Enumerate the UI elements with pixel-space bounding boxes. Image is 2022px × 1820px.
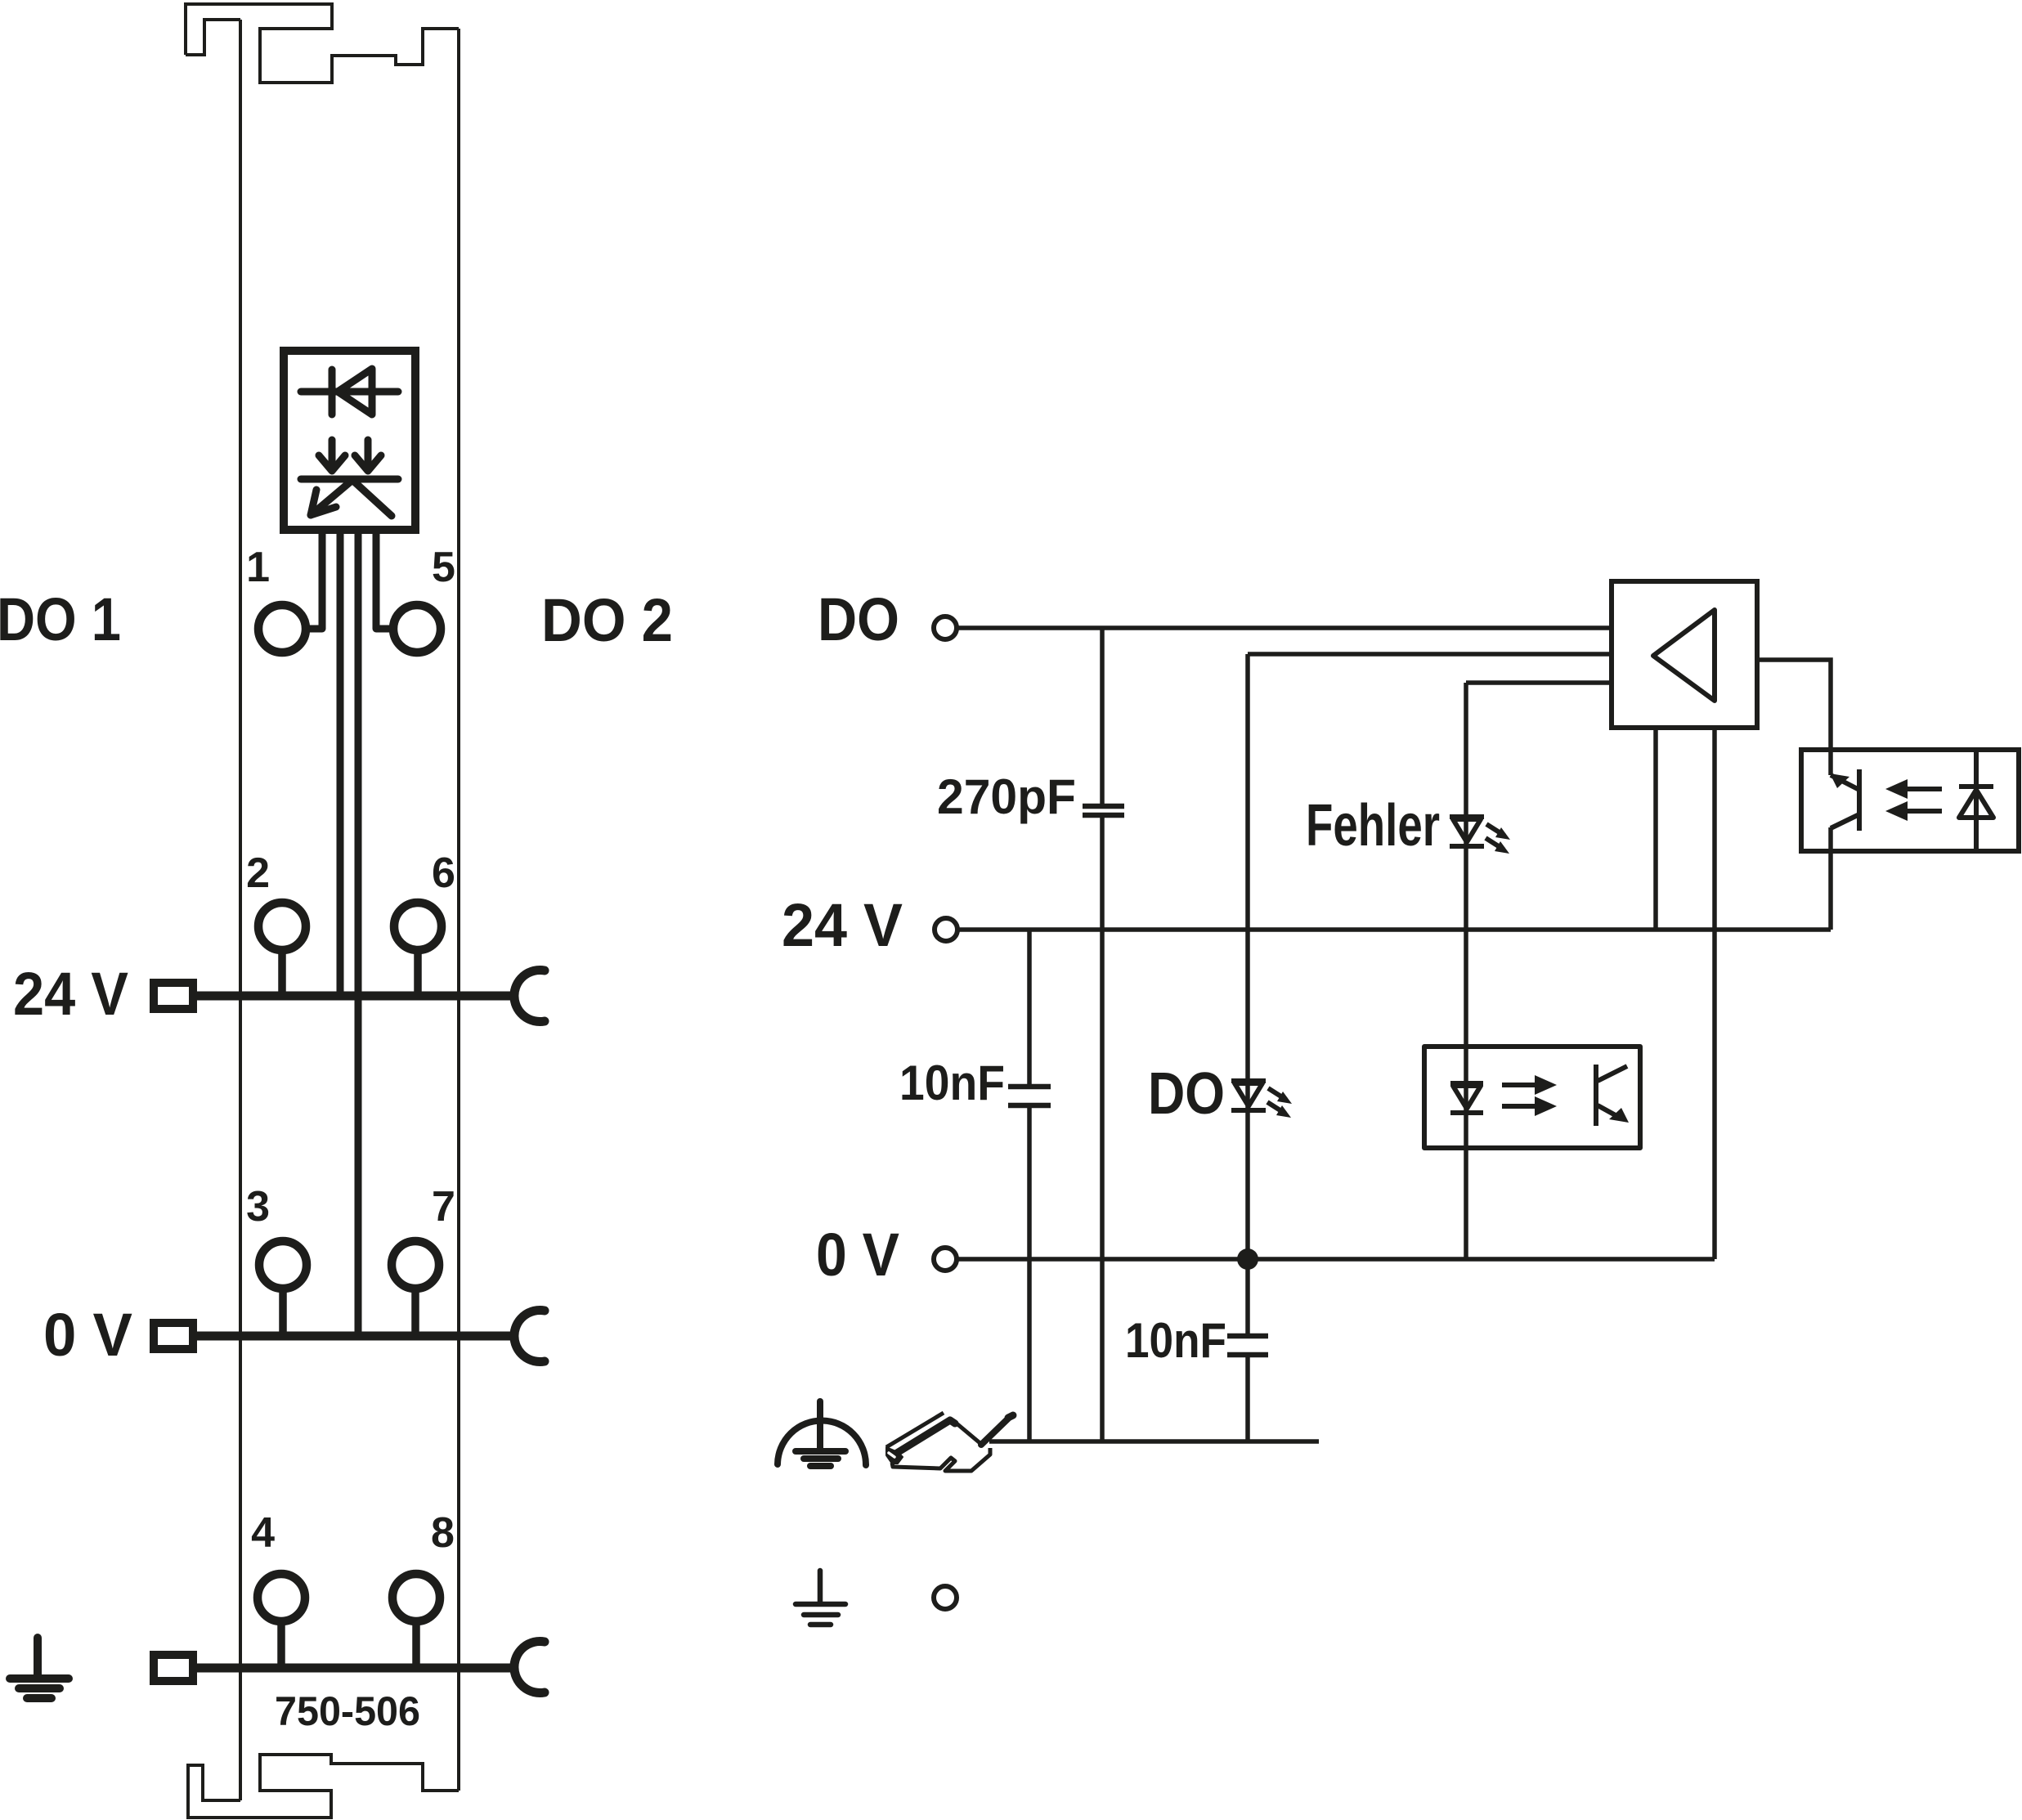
svg-text:DO: DO	[818, 585, 899, 653]
svg-text:750-506: 750-506	[275, 1688, 420, 1734]
svg-text:2: 2	[246, 849, 270, 897]
svg-text:0 V: 0 V	[43, 1301, 132, 1369]
svg-text:DO 2: DO 2	[541, 586, 673, 654]
svg-text:6: 6	[432, 849, 455, 897]
svg-text:DO 1: DO 1	[0, 585, 121, 653]
svg-text:24 V: 24 V	[13, 960, 128, 1028]
svg-text:270pF: 270pF	[937, 769, 1076, 824]
svg-text:Fehler: Fehler	[1306, 793, 1440, 858]
svg-text:3: 3	[246, 1183, 270, 1231]
svg-text:24 V: 24 V	[782, 891, 903, 959]
svg-text:10nF: 10nF	[899, 1056, 1005, 1110]
svg-text:5: 5	[432, 544, 455, 591]
svg-text:10nF: 10nF	[1125, 1313, 1226, 1368]
svg-text:1: 1	[246, 544, 270, 591]
svg-text:7: 7	[432, 1183, 455, 1231]
svg-text:4: 4	[251, 1509, 275, 1557]
svg-text:0 V: 0 V	[816, 1221, 899, 1289]
svg-text:8: 8	[431, 1509, 455, 1557]
svg-text:DO: DO	[1148, 1061, 1225, 1127]
